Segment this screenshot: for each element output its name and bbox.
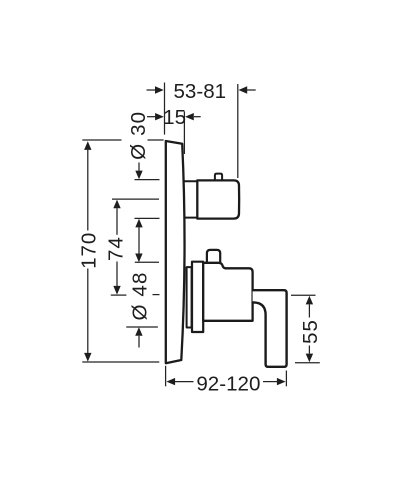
svg-text:170: 170: [78, 232, 101, 269]
valve flange sleeve (Ø48): [192, 262, 203, 332]
dim Ø30: top extension line (grip top): [135, 179, 160, 181]
dim 53-81: left arrow tail: [147, 89, 156, 91]
dim 74: lower dim line: [116, 262, 118, 287]
neck between plate and grip: [184, 181, 198, 219]
wall plate (escutcheon, side view): [166, 141, 185, 363]
dim 53-81: left extension line: [164, 83, 166, 135]
dim 53-81: right extension line: [237, 84, 239, 178]
dim 92-120: right extension line: [285, 371, 287, 387]
dim 74: top extension line (grip axis): [112, 198, 159, 200]
cartridge stem cap: [207, 250, 220, 262]
svg-text:15: 15: [163, 106, 186, 129]
dim Ø48: bottom extension line: [126, 326, 158, 328]
dim 74: bottom arrowhead (down): [113, 286, 120, 295]
dim 55: top arrowhead (up): [306, 296, 313, 305]
dim 92-120: left arrowhead: [166, 378, 175, 385]
dim 15: left arrow tail: [147, 116, 155, 118]
svg-text:74: 74: [104, 236, 127, 261]
dim 53-81: right arrow tail: [247, 89, 256, 91]
svg-text:92-120: 92-120: [196, 373, 260, 396]
dim 92-120: right arrowhead: [277, 378, 286, 385]
dim 92-120: left extension line: [165, 366, 167, 387]
spacer ring behind flange: [187, 267, 192, 327]
valve body: [203, 263, 252, 321]
dim Ø48: top extension line: [135, 261, 159, 263]
dim 53-81: left arrowhead: [155, 86, 164, 93]
dim Ø30: bottom arrowhead (up): [135, 219, 142, 228]
dim 55: top extension line: [291, 294, 316, 296]
dim 55: lower dim line: [308, 346, 310, 354]
dim 74: upper dim line: [116, 208, 118, 235]
nub on grip top: [215, 174, 222, 180]
dim Ø48: bottom arrow tail: [138, 336, 140, 348]
dim 74: bottom extension line right of text: [153, 294, 160, 296]
dim 170: bottom extension line: [82, 361, 159, 363]
dim Ø30: top arrowhead (down): [135, 171, 142, 180]
svg-text:55: 55: [299, 319, 322, 344]
dim 92-120: left dim line: [175, 381, 194, 383]
dim 92-120: right dim line: [263, 381, 277, 383]
lever handle: [253, 290, 287, 367]
dim 15: right arrow tail: [194, 116, 201, 118]
dim Ø30: bottom extension line (grip bottom): [135, 217, 160, 219]
thermostat grip (Ø30): [197, 180, 239, 218]
dim 55: upper dim line: [308, 304, 310, 317]
dim 74: top arrowhead (up): [113, 200, 120, 209]
dim 53-81: right arrowhead: [239, 86, 248, 93]
dim Ø30: lower tail between arrows: [138, 227, 140, 253]
dim 15: right extension line: [183, 112, 185, 155]
dim 170: upper dim line: [87, 150, 89, 231]
dim 170: top arrowhead (up): [84, 141, 91, 150]
dim 170: top extension line right segment: [148, 139, 164, 141]
svg-text:53-81: 53-81: [173, 80, 226, 103]
dim 55: bottom arrowhead (down): [306, 354, 313, 363]
svg-text:Ø 30: Ø 30: [127, 111, 150, 160]
dim Ø30: stem below text: [138, 163, 140, 171]
dim 15: right arrowhead: [185, 113, 194, 120]
dim 74: bottom extension line left of text: [111, 294, 127, 296]
svg-text:Ø 48: Ø 48: [128, 271, 151, 320]
dim 55: bottom extension line: [295, 362, 320, 364]
dim Ø48: top arrowhead (down): [135, 254, 142, 263]
dim 170: bottom arrowhead (down): [84, 353, 91, 362]
dim Ø48: bottom arrowhead (up): [135, 327, 142, 336]
dim 15: left arrowhead: [155, 113, 164, 120]
dim 170: lower dim line: [87, 269, 89, 354]
dim 170: top extension line left segment: [82, 139, 121, 141]
